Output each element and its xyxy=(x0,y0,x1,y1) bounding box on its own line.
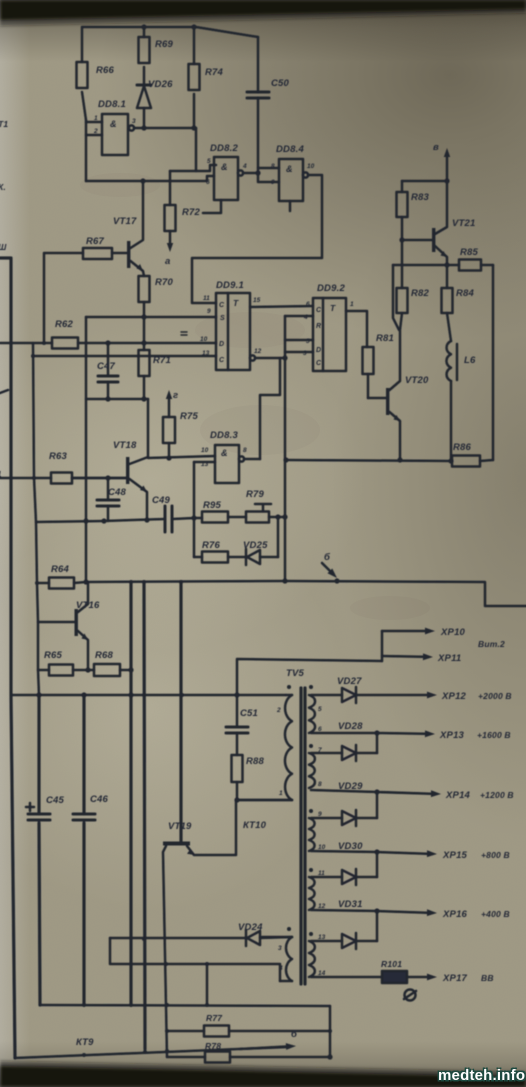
secondary winding 2 xyxy=(309,753,315,788)
node R71 bottom xyxy=(141,396,146,401)
pin 2 DD8.1 xyxy=(86,134,102,137)
svg-text:R62: R62 xyxy=(55,319,74,330)
wire KT9 row xyxy=(15,1047,288,1058)
inv output 12 DD9.1 xyxy=(250,355,255,360)
resistor R72 xyxy=(165,205,176,231)
node vd28 out xyxy=(374,730,379,735)
margin stub xyxy=(0,390,8,393)
wire DD8.2 bottom stub xyxy=(203,200,221,213)
resistor R65 xyxy=(38,669,49,672)
capacitor C46 xyxy=(82,695,85,814)
svg-text:5: 5 xyxy=(318,706,322,713)
svg-text:T: T xyxy=(233,298,239,308)
svg-text:R69: R69 xyxy=(155,39,174,50)
node kt9 c46 xyxy=(82,1053,86,1057)
node bus x144 xyxy=(142,693,146,697)
svg-text:+2000 В: +2000 В xyxy=(478,691,512,701)
svg-text:10: 10 xyxy=(307,163,315,170)
wire DD8.3 output up xyxy=(244,458,260,461)
svg-text:+1600 В: +1600 В xyxy=(477,730,511,740)
connector XP13 xyxy=(377,732,425,735)
resistor R82 xyxy=(401,240,404,288)
node VT20 emitter bottom xyxy=(397,457,402,462)
svg-text:4: 4 xyxy=(242,163,247,170)
svg-text:КТ10: КТ10 xyxy=(243,820,267,831)
wire bottom C input xyxy=(33,355,216,358)
svg-text:Т1: Т1 xyxy=(0,119,8,129)
transistor VT20 xyxy=(386,388,389,415)
svg-text:DD8.1: DD8.1 xyxy=(98,99,126,110)
wire D input row (from R62) xyxy=(78,342,216,345)
node bus x182 xyxy=(180,693,184,697)
top dark bar xyxy=(0,0,526,26)
resistor R78 xyxy=(167,1056,205,1059)
transistor VT16 xyxy=(75,609,78,636)
node bus c46 xyxy=(81,692,86,697)
node r77 left xyxy=(165,1029,169,1033)
wire VT16 base xyxy=(38,621,74,624)
svg-text:R75: R75 xyxy=(180,411,199,422)
svg-text:R88: R88 xyxy=(246,756,265,767)
node kt9 x144 xyxy=(143,1050,147,1054)
capacitor C48 xyxy=(107,478,110,500)
svg-text:1: 1 xyxy=(94,115,98,122)
svg-text:DD9.1: DD9.1 xyxy=(216,280,244,291)
node v junction xyxy=(444,178,449,183)
wire to DD8.2 pin5 xyxy=(196,128,216,171)
resistor R64 xyxy=(37,582,49,585)
resistor R86 xyxy=(452,456,480,467)
node C47 bottom xyxy=(105,396,110,401)
node chain x86 xyxy=(83,518,88,523)
wire VT20 base xyxy=(368,397,386,400)
resistor R83 xyxy=(401,181,404,192)
wire R67 left xyxy=(44,253,83,341)
wire DD9.2 feedback vertical xyxy=(284,316,287,581)
svg-text:R82: R82 xyxy=(411,288,430,299)
node 1005 x167 xyxy=(165,1003,169,1007)
svg-text:+800 В: +800 В xyxy=(481,850,510,860)
resistor R63 xyxy=(0,477,51,480)
wire VT18 base xyxy=(72,477,126,480)
resistor R62 xyxy=(52,338,78,349)
svg-text:C50: C50 xyxy=(271,78,290,89)
wire pin10 row xyxy=(311,851,377,852)
capacitor C51 xyxy=(226,726,248,729)
wire DD9.2 out to R81 xyxy=(346,311,367,347)
wire left bus x86 xyxy=(85,317,88,581)
wire C51 branch xyxy=(237,659,382,727)
svg-text:D: D xyxy=(316,347,321,354)
wire pin8 row xyxy=(311,790,377,792)
resistor R84 xyxy=(446,265,449,288)
diode VD24 net xyxy=(110,937,246,940)
node VT17 collector xyxy=(140,178,145,183)
svg-text:г: г xyxy=(173,390,178,401)
wire pin13 down xyxy=(193,462,196,557)
node rail x144 xyxy=(142,580,146,584)
capacitor C50 xyxy=(247,91,269,94)
svg-text:C49: C49 xyxy=(152,495,171,506)
svg-text:6: 6 xyxy=(306,301,310,308)
svg-text:T: T xyxy=(330,303,336,313)
transistor VT18 xyxy=(126,457,129,484)
svg-text:R72: R72 xyxy=(182,207,201,218)
svg-text:R63: R63 xyxy=(49,451,68,462)
svg-text:R76: R76 xyxy=(202,540,221,551)
svg-text:8: 8 xyxy=(243,447,247,454)
svg-text:Вит.2: Вит.2 xyxy=(478,639,505,649)
svg-text:R66: R66 xyxy=(96,65,115,76)
node row x286 xyxy=(283,457,288,462)
connector arrow b mid xyxy=(322,563,330,571)
svg-text:2: 2 xyxy=(93,128,98,135)
resistor R76 xyxy=(194,556,202,559)
resistor R67 xyxy=(83,248,112,259)
connector arrow a xyxy=(169,231,172,244)
svg-text:1: 1 xyxy=(279,790,283,797)
wire VT18 collector row xyxy=(148,456,215,458)
node vd29 out xyxy=(374,789,379,794)
transistor VT21 xyxy=(432,228,435,252)
node rail x181 xyxy=(179,580,183,584)
wire S input xyxy=(86,316,216,319)
svg-text:а: а xyxy=(165,256,170,267)
svg-text:8: 8 xyxy=(318,781,322,788)
svg-text:R83: R83 xyxy=(411,192,430,203)
svg-text:R: R xyxy=(316,323,321,330)
wire C47 R71 bottom xyxy=(86,398,148,401)
connector arrow b bottom xyxy=(240,1047,286,1050)
svg-text:ХР10: ХР10 xyxy=(440,627,466,638)
svg-text:15: 15 xyxy=(253,297,261,304)
svg-text:&: & xyxy=(110,119,117,129)
svg-text:ХР17: ХР17 xyxy=(442,973,468,984)
logic gate DD8.2 xyxy=(214,157,238,200)
svg-text:R70: R70 xyxy=(155,277,174,288)
svg-text:ХР14: ХР14 xyxy=(445,790,471,801)
wire pin6 row xyxy=(311,732,377,735)
svg-text:VD31: VD31 xyxy=(338,899,363,910)
node rail x285 xyxy=(282,578,287,583)
svg-text:ХР13: ХР13 xyxy=(439,730,465,741)
svg-text:DD8.2: DD8.2 xyxy=(210,143,238,154)
polarity dot primary xyxy=(287,685,291,689)
wire x144 down xyxy=(144,582,145,1049)
node VT21 emitter xyxy=(444,262,449,267)
svg-text:1: 1 xyxy=(350,301,354,308)
svg-text:ХР12: ХР12 xyxy=(441,691,467,702)
wire DD8.4 output loop xyxy=(192,175,322,303)
wire node branch R72 xyxy=(170,170,196,173)
wire DD8.2 output xyxy=(243,172,258,175)
svg-text:DD9.2: DD9.2 xyxy=(317,283,345,294)
wire VD25 up xyxy=(277,517,280,557)
svg-text:VT20: VT20 xyxy=(405,375,429,386)
wire DD8.4 inputs xyxy=(258,167,279,170)
node x33 wire xyxy=(31,354,35,358)
resistor R68 xyxy=(94,664,120,676)
connector arrow v supply xyxy=(446,156,449,181)
resistor R74 xyxy=(189,64,200,90)
resistor R70 xyxy=(139,276,150,302)
node bus x131 xyxy=(128,692,133,697)
svg-text:КТ9: КТ9 xyxy=(76,1037,94,1048)
svg-text:C48: C48 xyxy=(108,487,127,498)
wire bottom rail 1005 xyxy=(40,1005,330,1006)
node bus c45 xyxy=(36,692,41,697)
wire x131 down xyxy=(129,582,132,1005)
svg-text:в: в xyxy=(433,142,439,153)
wire xp10/11 feeds xyxy=(381,631,384,661)
connector XP10 xyxy=(382,630,425,633)
node chain emitter xyxy=(144,517,149,522)
primary winding 1 xyxy=(286,694,292,697)
svg-text:+400 В: +400 В xyxy=(481,909,510,919)
node R74 bottom xyxy=(191,125,196,130)
node R63 rail xyxy=(32,476,36,480)
node r77 right xyxy=(328,1029,332,1033)
svg-text:&: & xyxy=(221,448,228,458)
svg-text:R65: R65 xyxy=(44,650,63,661)
wire VT21 base xyxy=(402,239,432,242)
node vd24 x144 xyxy=(142,937,146,941)
node r78 right xyxy=(327,1054,332,1059)
svg-text:R95: R95 xyxy=(203,500,222,511)
svg-text:R81: R81 xyxy=(376,333,394,344)
node vd24 x207 xyxy=(205,962,209,966)
svg-text:ХР15: ХР15 xyxy=(442,850,468,861)
watermark medteh.info xyxy=(438,1067,525,1084)
node C50 bottom xyxy=(255,170,260,175)
svg-text:VD26: VD26 xyxy=(148,79,173,90)
node emitter R65 R68 xyxy=(85,667,90,672)
connector XP12 xyxy=(356,694,427,697)
wire base feed x182 xyxy=(179,582,182,841)
svg-text:&: & xyxy=(221,162,228,172)
node vd24 x167 xyxy=(164,962,168,966)
diode VD31 xyxy=(311,940,342,943)
transistor VT19 xyxy=(163,842,190,846)
svg-text:VD30: VD30 xyxy=(338,841,363,852)
ground symbol theta xyxy=(405,990,416,1001)
svg-text:8: 8 xyxy=(271,163,275,170)
resistor R88 xyxy=(232,755,243,782)
svg-text:R68: R68 xyxy=(95,650,114,661)
svg-text:VD27: VD27 xyxy=(337,676,362,687)
node R71 top xyxy=(141,340,146,345)
svg-text:R71: R71 xyxy=(153,355,171,366)
svg-text:R77: R77 xyxy=(206,1013,223,1023)
secondary winding 5 xyxy=(309,941,315,977)
svg-text:VT17: VT17 xyxy=(113,216,137,227)
node R79 right xyxy=(275,514,280,519)
secondary winding 1 xyxy=(309,695,315,733)
wire x207 down xyxy=(206,964,209,1005)
logic gate DD8.4 xyxy=(279,159,303,201)
resistor R66 xyxy=(77,62,88,88)
node vd30 out xyxy=(374,849,379,854)
supply bus 695 xyxy=(11,694,286,697)
svg-text:б: б xyxy=(291,1029,298,1040)
svg-text:2: 2 xyxy=(276,707,281,714)
capacitor C47 xyxy=(107,343,110,376)
svg-text:L6: L6 xyxy=(464,355,476,366)
logic gate DD8.1 xyxy=(102,114,128,155)
node R64 left xyxy=(35,581,39,585)
svg-text:5: 5 xyxy=(207,158,211,165)
connector XP14 xyxy=(377,792,431,794)
svg-text:3: 3 xyxy=(278,945,282,952)
wire DD8.1 inputs vertical xyxy=(85,120,88,181)
resistor R75 xyxy=(168,443,171,458)
svg-text:VD25: VD25 xyxy=(243,540,268,551)
svg-text:ХР11: ХР11 xyxy=(437,653,461,664)
node chain end xyxy=(282,514,287,519)
svg-text:R79: R79 xyxy=(246,489,265,500)
node kt9 x167 xyxy=(165,1049,169,1053)
node R95 left xyxy=(191,515,196,520)
wire pin12 row xyxy=(311,910,377,911)
node R64 right xyxy=(83,579,88,584)
secondary winding 3 xyxy=(309,818,315,851)
node top R74 xyxy=(191,24,196,29)
inductor L6 xyxy=(446,341,451,381)
wire to primary pin1 xyxy=(237,799,292,802)
resistor R85 xyxy=(459,260,481,271)
svg-text:R84: R84 xyxy=(456,288,475,299)
node x131 R68 xyxy=(128,667,133,672)
node base R83 xyxy=(399,237,404,242)
svg-text:6: 6 xyxy=(206,179,210,186)
wire emitter bottom row xyxy=(286,460,452,461)
svg-text:DD8.4: DD8.4 xyxy=(276,144,304,155)
polarity dot primary2 xyxy=(287,927,291,931)
wire v to R83 xyxy=(402,180,447,183)
svg-text:11: 11 xyxy=(203,295,210,302)
wire long mid rail xyxy=(86,581,526,606)
wire pin12 to DD8.3 out xyxy=(260,358,280,459)
svg-text:VD24: VD24 xyxy=(238,922,263,933)
diode VD26 xyxy=(137,84,151,87)
connector XP11 xyxy=(382,655,423,658)
wire far left bus xyxy=(0,258,15,1058)
capacitor C45 xyxy=(37,695,40,814)
svg-text:VT21: VT21 xyxy=(452,218,476,229)
resistor R77 xyxy=(167,1030,204,1033)
node L6 bottom xyxy=(448,458,453,463)
polarity dots secondary xyxy=(309,685,313,689)
node VD26 anode xyxy=(141,125,146,130)
resistor R81 xyxy=(363,347,374,374)
node b junction xyxy=(334,578,339,583)
node R67 branch xyxy=(42,341,46,345)
svg-text:R85: R85 xyxy=(460,247,479,258)
wire DD9.1 Q to DD9.2 xyxy=(250,306,313,307)
svg-text:VT19: VT19 xyxy=(168,821,192,832)
svg-text:ВВ: ВВ xyxy=(481,973,494,983)
resistor R95 xyxy=(202,512,228,523)
transistor VT17 xyxy=(127,241,130,268)
node C48 top xyxy=(105,475,110,480)
bottom dark bar xyxy=(0,1061,526,1087)
svg-text:R64: R64 xyxy=(51,564,70,575)
node primary bottom xyxy=(234,797,239,802)
wire DD8.4 bottom stub xyxy=(289,201,292,211)
connector XP17 xyxy=(407,976,427,979)
svg-text:3: 3 xyxy=(132,118,136,125)
connector XP15 xyxy=(377,852,427,854)
svg-text:DD8.3: DD8.3 xyxy=(210,430,238,441)
diode VD28 xyxy=(311,752,342,755)
diode VD25 xyxy=(247,550,260,564)
flip-flop DD9.2 xyxy=(313,298,346,371)
wire DD8.1 output xyxy=(134,127,196,130)
svg-text:R101: R101 xyxy=(381,959,402,969)
node chain C48 xyxy=(101,518,106,523)
resistor R79 trimmer xyxy=(246,512,269,523)
svg-text:C46: C46 xyxy=(90,794,109,805)
diode VD30 xyxy=(311,876,342,879)
svg-text:D: D xyxy=(219,341,224,348)
svg-text:К.: К. xyxy=(0,182,6,192)
node top R69 xyxy=(141,24,146,29)
wire emitter to VT20 xyxy=(393,265,399,330)
node 1005 c46 xyxy=(82,1003,86,1007)
node 1005 x207 xyxy=(205,1003,209,1007)
resistor R69 xyxy=(139,37,150,63)
wire R85 down right xyxy=(492,265,495,460)
svg-text:+1200 В: +1200 В xyxy=(480,790,514,800)
svg-text:ХР16: ХР16 xyxy=(442,909,468,920)
connector arrow g xyxy=(168,398,171,417)
svg-text:VT16: VT16 xyxy=(76,600,100,611)
wire emitter chain xyxy=(36,519,165,522)
svg-text:C47: C47 xyxy=(97,361,116,372)
svg-text:R67: R67 xyxy=(86,236,105,247)
node C51 bus xyxy=(234,692,239,697)
node C47 top xyxy=(105,340,110,345)
wire pin14 row xyxy=(311,976,382,979)
svg-text:VD29: VD29 xyxy=(338,781,363,792)
pin 1 DD8.1 xyxy=(86,121,102,124)
primary winding 2 xyxy=(262,936,292,939)
svg-text:9: 9 xyxy=(271,179,275,186)
loop right vertical xyxy=(329,1006,332,1057)
node vd31 out xyxy=(374,908,379,913)
secondary winding 4 xyxy=(309,877,315,910)
svg-text:VD28: VD28 xyxy=(338,721,363,732)
svg-text:R74: R74 xyxy=(205,67,224,78)
svg-text:10: 10 xyxy=(201,447,209,454)
svg-text:Ш: Ш xyxy=(0,242,7,252)
wire DD8.1 pin2 net xyxy=(86,176,214,181)
diode VD29 xyxy=(311,817,342,820)
wire emitter row xyxy=(393,264,447,267)
flip-flop DD9.1 xyxy=(216,293,250,370)
stains xyxy=(80,173,430,620)
svg-text:TV5: TV5 xyxy=(286,668,305,679)
svg-text:б: б xyxy=(324,552,331,563)
diode VD27 xyxy=(311,694,342,697)
logic gate DD8.3 xyxy=(215,445,239,483)
svg-text:VT18: VT18 xyxy=(113,440,137,451)
node 1005 x131 xyxy=(129,1003,133,1007)
node R70 to S wire xyxy=(141,314,146,319)
node pin12 junction xyxy=(282,355,287,360)
svg-text:R86: R86 xyxy=(453,442,472,453)
capacitor C49 xyxy=(164,506,167,532)
